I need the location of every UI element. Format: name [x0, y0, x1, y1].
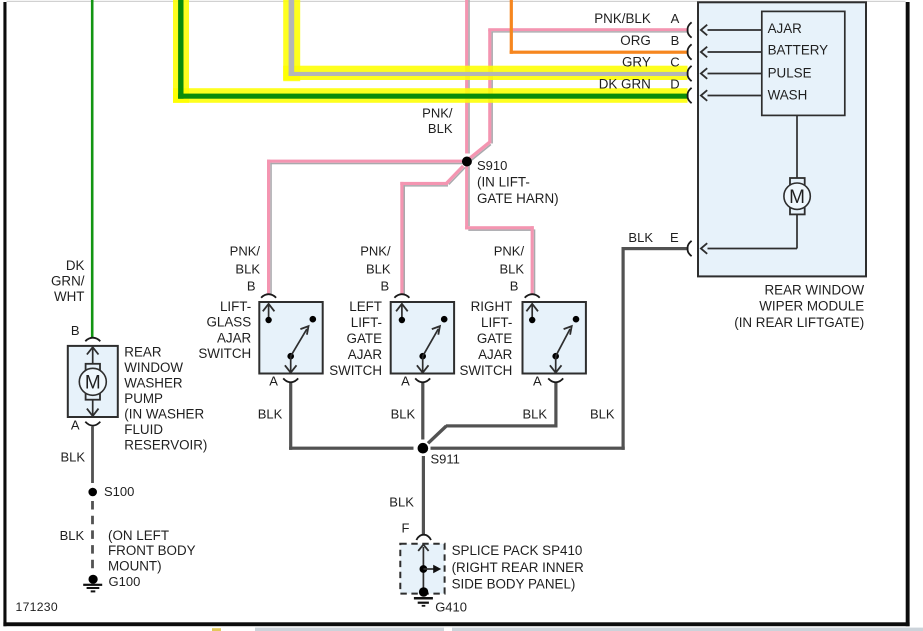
- svg-text:SWITCH: SWITCH: [459, 363, 512, 378]
- svg-text:BLK: BLK: [628, 230, 653, 245]
- svg-text:BLK: BLK: [366, 262, 391, 277]
- svg-text:A: A: [671, 11, 680, 26]
- svg-text:F: F: [402, 521, 410, 536]
- svg-text:(RIGHT REAR INNER: (RIGHT REAR INNER: [452, 560, 585, 575]
- svg-text:WINDOW: WINDOW: [124, 360, 183, 375]
- svg-text:RESERVOIR): RESERVOIR): [124, 438, 207, 453]
- svg-text:SIDE BODY PANEL): SIDE BODY PANEL): [452, 577, 576, 592]
- svg-text:AJAR: AJAR: [217, 330, 252, 345]
- svg-text:LIFT-: LIFT-: [351, 315, 382, 330]
- svg-text:A: A: [269, 374, 278, 389]
- svg-text:FLUID: FLUID: [124, 422, 163, 437]
- svg-text:PNK/: PNK/: [360, 244, 391, 259]
- svg-text:WASH: WASH: [768, 87, 808, 102]
- svg-text:B: B: [381, 279, 390, 294]
- svg-text:GLASS: GLASS: [207, 315, 252, 330]
- svg-text:A: A: [401, 374, 410, 389]
- svg-text:BLK: BLK: [590, 407, 615, 422]
- svg-text:LIFT-: LIFT-: [220, 299, 251, 314]
- svg-text:FRONT BODY: FRONT BODY: [108, 543, 196, 558]
- svg-text:BLK: BLK: [235, 262, 260, 277]
- svg-text:(IN REAR LIFTGATE): (IN REAR LIFTGATE): [734, 315, 864, 330]
- svg-text:B: B: [510, 279, 519, 294]
- svg-text:D: D: [670, 77, 679, 92]
- svg-text:C: C: [670, 55, 679, 70]
- svg-text:SPLICE PACK SP410: SPLICE PACK SP410: [452, 543, 583, 558]
- svg-text:GRN/: GRN/: [51, 273, 85, 288]
- svg-text:ORG: ORG: [620, 33, 651, 48]
- svg-text:AJAR: AJAR: [348, 347, 383, 362]
- svg-text:RIGHT: RIGHT: [471, 299, 513, 314]
- svg-text:WHT: WHT: [54, 289, 85, 304]
- svg-text:BLK: BLK: [61, 449, 86, 464]
- svg-text:171230: 171230: [16, 600, 58, 614]
- svg-text:E: E: [670, 230, 679, 245]
- svg-text:PNK/: PNK/: [230, 244, 261, 259]
- svg-text:BLK: BLK: [60, 528, 85, 543]
- svg-text:B: B: [71, 323, 80, 338]
- svg-text:AJAR: AJAR: [478, 347, 513, 362]
- svg-text:LIFT-: LIFT-: [481, 315, 512, 330]
- svg-text:(IN WASHER: (IN WASHER: [124, 407, 204, 422]
- svg-text:(ON LEFT: (ON LEFT: [108, 528, 169, 543]
- svg-text:REAR WINDOW: REAR WINDOW: [765, 283, 865, 298]
- svg-text:PULSE: PULSE: [768, 65, 812, 80]
- svg-text:AJAR: AJAR: [768, 21, 803, 36]
- svg-text:A: A: [71, 418, 80, 433]
- svg-text:BLK: BLK: [389, 495, 414, 510]
- svg-text:GATE HARN): GATE HARN): [477, 191, 559, 206]
- svg-text:PNK/BLK: PNK/BLK: [594, 11, 651, 26]
- svg-text:LEFT: LEFT: [349, 299, 382, 314]
- svg-text:SWITCH: SWITCH: [329, 363, 382, 378]
- svg-text:B: B: [671, 33, 680, 48]
- svg-text:PNK/: PNK/: [422, 106, 453, 121]
- svg-text:S911: S911: [431, 452, 460, 467]
- svg-text:BLK: BLK: [258, 407, 283, 422]
- svg-text:GATE: GATE: [477, 331, 513, 346]
- svg-text:WIPER MODULE: WIPER MODULE: [759, 299, 864, 314]
- svg-text:G100: G100: [109, 574, 141, 589]
- svg-text:A: A: [533, 374, 542, 389]
- svg-text:SWITCH: SWITCH: [198, 346, 251, 361]
- svg-text:S910: S910: [477, 158, 507, 173]
- svg-text:GATE: GATE: [347, 331, 383, 346]
- svg-text:REAR: REAR: [124, 345, 162, 360]
- svg-text:GRY: GRY: [622, 55, 651, 70]
- svg-text:M: M: [789, 187, 805, 208]
- svg-text:BLK: BLK: [500, 262, 525, 277]
- svg-text:B: B: [247, 279, 256, 294]
- svg-text:MOUNT): MOUNT): [108, 559, 162, 574]
- svg-text:S100: S100: [104, 484, 134, 499]
- svg-text:(IN LIFT-: (IN LIFT-: [477, 175, 530, 190]
- svg-text:BLK: BLK: [428, 121, 453, 136]
- svg-text:PUMP: PUMP: [124, 391, 163, 406]
- svg-text:DK: DK: [66, 258, 85, 273]
- svg-text:BLK: BLK: [391, 407, 416, 422]
- svg-text:PNK/: PNK/: [494, 244, 525, 259]
- svg-text:M: M: [85, 373, 101, 394]
- svg-text:WASHER: WASHER: [124, 376, 183, 391]
- svg-text:BLK: BLK: [523, 407, 548, 422]
- svg-text:G410: G410: [435, 600, 467, 615]
- svg-text:DK GRN: DK GRN: [599, 77, 651, 92]
- svg-text:BATTERY: BATTERY: [768, 43, 829, 58]
